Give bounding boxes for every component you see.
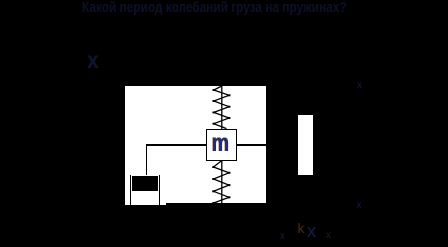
mark x top-right	[357, 80, 362, 91]
spring lower	[214, 161, 230, 205]
mark x bottom-right	[357, 200, 362, 211]
spring lower coil vertex blobs	[212, 166, 230, 204]
wire damper-vertical	[146, 144, 148, 175]
label x of kx	[307, 221, 316, 242]
mass box m	[206, 129, 237, 161]
spring upper	[214, 86, 229, 129]
wire m-right	[237, 144, 266, 146]
frame box (white)	[125, 86, 266, 205]
wall slider (white)	[298, 115, 313, 175]
label k	[298, 220, 305, 236]
mark x right of kx	[326, 230, 331, 241]
mass label m	[212, 129, 229, 158]
mark x left of kx	[280, 231, 285, 242]
label x (displacement axis)	[87, 47, 99, 74]
spring upper coil vertex blobs	[213, 89, 231, 125]
damper fill	[132, 176, 158, 192]
floor line	[166, 203, 266, 205]
damper right wall	[159, 175, 160, 205]
title text	[82, 0, 347, 16]
wire m-left	[146, 144, 206, 146]
damper left wall	[130, 175, 131, 205]
